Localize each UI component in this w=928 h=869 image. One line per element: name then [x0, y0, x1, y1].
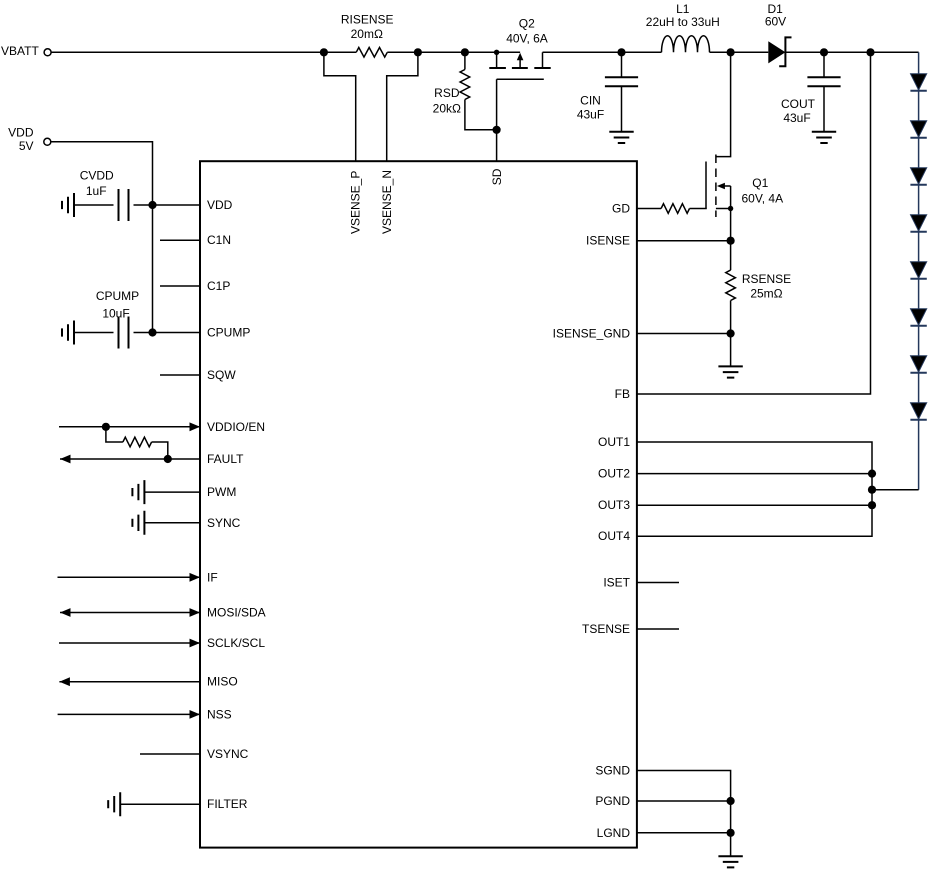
- pin label OUT2: [598, 467, 630, 481]
- pin label ISENSE_GND: [553, 327, 631, 341]
- label RISENSE value 20mohm: [351, 27, 383, 41]
- LED D4 cathode bar: [910, 184, 926, 186]
- transistor Q2 gate bar: [497, 78, 544, 80]
- pin label FAULT: [207, 452, 244, 466]
- svg-text:Q1: Q1: [752, 176, 768, 190]
- wire PWM pin: [144, 491, 200, 493]
- LED D2 triangle: [911, 74, 927, 90]
- pin label PGND: [595, 794, 630, 808]
- svg-text:60V: 60V: [765, 15, 786, 29]
- wire divider right lead: [152, 442, 168, 459]
- wire VDDIO/EN arrow: [59, 422, 200, 431]
- svg-text:SQW: SQW: [207, 368, 236, 382]
- wire CPUMP pin: [153, 332, 201, 334]
- resistor RISENSE: [356, 48, 387, 58]
- wire FILTER pin: [120, 803, 200, 805]
- ground FILTER: [108, 792, 120, 816]
- wire VDD terminal to rail: [51, 142, 153, 333]
- LED D7 triangle: [911, 309, 927, 325]
- label COUT value: [783, 111, 810, 125]
- svg-text:1uF: 1uF: [86, 184, 107, 198]
- svg-text:FB: FB: [615, 387, 630, 401]
- pin label VDDIO/EN: [207, 420, 265, 434]
- wire RISENSE to Q2: [387, 51, 520, 53]
- svg-text:CPUMP: CPUMP: [207, 326, 250, 340]
- ground CVDD: [62, 193, 74, 217]
- svg-text:C1N: C1N: [207, 233, 231, 247]
- wire C1N stub: [160, 239, 200, 241]
- svg-text:CIN: CIN: [580, 94, 601, 108]
- LED D3 triangle: [911, 121, 927, 137]
- node CPUMP pin junction: [148, 328, 156, 336]
- svg-text:SGND: SGND: [595, 764, 630, 778]
- svg-text:MISO: MISO: [207, 675, 238, 689]
- wire OUT2 pin: [637, 473, 872, 475]
- wire Q2 gate down to SD: [496, 79, 498, 161]
- wire SYNC pin: [144, 522, 200, 524]
- svg-text:MOSI/SDA: MOSI/SDA: [207, 606, 266, 620]
- label CVDD value: [86, 184, 107, 198]
- label D1: [768, 2, 784, 16]
- svg-text:CPUMP: CPUMP: [96, 289, 139, 303]
- svg-text:LGND: LGND: [597, 826, 631, 840]
- wire LED string vertical: [918, 52, 920, 489]
- LED D4 triangle: [911, 168, 927, 184]
- pin label OUT4: [598, 529, 630, 543]
- diode D1 cathode bar: [779, 37, 791, 66]
- wire FB riser: [637, 52, 871, 394]
- capacitor CIN: [605, 52, 638, 132]
- capacitor CVDD: [74, 189, 153, 221]
- resistor RGD: [661, 204, 689, 214]
- label L1: [676, 2, 690, 16]
- wire SGND pin: [637, 771, 731, 857]
- wire RSD bottom to SD node: [465, 100, 497, 130]
- LED D3 cathode bar: [910, 137, 926, 139]
- wire IF arrow: [58, 573, 201, 582]
- label CPUMP value: [102, 307, 129, 321]
- pin label OUT3: [598, 498, 630, 512]
- node SD junction: [493, 126, 501, 134]
- node Q2 source junction: [494, 50, 499, 55]
- wire Q1 source to ISENSE: [730, 209, 732, 271]
- wire C1P stub: [160, 285, 200, 287]
- wire SCLK/SCL arrow: [59, 639, 200, 648]
- svg-text:5V: 5V: [19, 139, 34, 153]
- ground PWM: [132, 480, 144, 504]
- pin label TSENSE: [582, 622, 630, 636]
- ground COUT: [812, 132, 836, 143]
- wire LED return: [872, 489, 919, 491]
- pin label VSENSE_P rotated: [348, 171, 362, 234]
- svg-text:VDDIO/EN: VDDIO/EN: [207, 420, 265, 434]
- pin label C1P: [207, 279, 230, 293]
- transistor Q1 source contact: [716, 208, 731, 210]
- pin label NSS: [207, 707, 232, 721]
- capacitor COUT: [807, 52, 840, 132]
- wire MISO arrow: [59, 677, 200, 686]
- svg-text:OUT2: OUT2: [598, 467, 630, 481]
- pin label GD: [612, 202, 630, 216]
- svg-text:25mΩ: 25mΩ: [750, 287, 782, 301]
- wire VSENSE_P branch: [324, 52, 356, 161]
- svg-text:RISENSE: RISENSE: [341, 13, 394, 27]
- wire VSYNC stub: [140, 753, 200, 755]
- label RSD: [434, 86, 460, 100]
- ground CIN: [609, 132, 633, 143]
- svg-text:43uF: 43uF: [577, 108, 604, 122]
- wire VBATT rail to RISENSE: [51, 51, 356, 53]
- svg-text:60V, 4A: 60V, 4A: [741, 192, 783, 206]
- svg-text:RSENSE: RSENSE: [742, 272, 791, 286]
- wire OUT1 pin: [637, 442, 872, 536]
- node OUT2 junction: [868, 470, 876, 478]
- svg-text:ISENSE_GND: ISENSE_GND: [553, 327, 631, 341]
- pin label SD rotated: [490, 168, 504, 185]
- LED D7 cathode bar: [910, 325, 926, 327]
- svg-text:VSENSE_N: VSENSE_N: [380, 170, 394, 234]
- resistor RSENSE: [726, 270, 736, 300]
- svg-text:CVDD: CVDD: [80, 169, 114, 183]
- node VSENSE_P tap: [320, 48, 328, 56]
- wire FAULT arrow: [60, 455, 200, 464]
- resistor RSD: [460, 52, 470, 99]
- pin label MISO: [207, 675, 238, 689]
- LED D2 cathode bar: [910, 90, 926, 92]
- label RSENSE value: [750, 287, 782, 301]
- wire TSENSE stub: [637, 628, 679, 630]
- svg-text:10uF: 10uF: [102, 307, 129, 321]
- svg-text:COUT: COUT: [781, 97, 816, 111]
- svg-text:GD: GD: [612, 202, 630, 216]
- node CIN junction: [617, 48, 625, 56]
- svg-text:ISET: ISET: [603, 576, 630, 590]
- LED D6 cathode bar: [910, 278, 926, 280]
- wire RGD to Q1 gate: [690, 208, 707, 210]
- svg-text:SYNC: SYNC: [207, 516, 241, 530]
- node OUT3 junction: [868, 501, 876, 509]
- label D1 value: [765, 15, 786, 29]
- wire D1 to LED string: [785, 51, 918, 53]
- wire divider left lead: [106, 427, 123, 442]
- svg-text:20mΩ: 20mΩ: [351, 27, 383, 41]
- wire SQW stub: [160, 374, 200, 376]
- pin label LGND: [597, 826, 631, 840]
- label CPUMP: [96, 289, 139, 303]
- wire OUT3 pin: [637, 504, 872, 506]
- label Q2 rating: [506, 32, 548, 46]
- ground RSENSE: [718, 366, 742, 377]
- node FB tap: [866, 48, 874, 56]
- node LGND junction: [727, 829, 735, 837]
- svg-text:20kΩ: 20kΩ: [433, 102, 461, 116]
- label RSENSE: [742, 272, 791, 286]
- node Q1 source: [728, 206, 733, 211]
- pin label PWM: [207, 485, 236, 499]
- wire ISENSE_GND pin: [637, 333, 731, 335]
- svg-text:OUT1: OUT1: [598, 435, 630, 449]
- node RSD tap: [461, 48, 469, 56]
- pin label FILTER: [207, 797, 248, 811]
- svg-text:43uF: 43uF: [783, 111, 810, 125]
- label Q1 rating: [741, 192, 783, 206]
- pin label VSENSE_N rotated: [380, 170, 394, 234]
- svg-text:VSYNC: VSYNC: [207, 747, 249, 761]
- transistor Q1 gate bar: [705, 162, 707, 209]
- LED D5 cathode bar: [910, 231, 926, 233]
- LED D9 cathode bar: [910, 419, 926, 421]
- node PGND junction: [727, 797, 735, 805]
- svg-text:TSENSE: TSENSE: [582, 622, 630, 636]
- pin label ISET: [603, 576, 630, 590]
- transistor Q1 body arrow: [717, 183, 731, 209]
- transistor Q2 channel middle: [512, 67, 528, 69]
- label COUT: [781, 97, 816, 111]
- svg-text:RSD: RSD: [434, 86, 460, 100]
- pin label OUT1: [598, 435, 630, 449]
- wire MOSI/SDA arrows: [60, 608, 200, 617]
- label L1 value: [646, 15, 720, 29]
- svg-text:SD: SD: [490, 168, 504, 185]
- svg-text:OUT3: OUT3: [598, 498, 630, 512]
- transistor Q2 source contact: [489, 52, 506, 68]
- ground CPUMP: [62, 321, 74, 345]
- label Q2: [519, 17, 535, 31]
- svg-text:22uH to 33uH: 22uH to 33uH: [646, 15, 720, 29]
- svg-text:L1: L1: [676, 2, 690, 16]
- node FAULT junction: [164, 455, 172, 463]
- label CIN value: [577, 108, 604, 122]
- svg-text:OUT4: OUT4: [598, 529, 630, 543]
- svg-text:PWM: PWM: [207, 485, 236, 499]
- label RISENSE: [341, 13, 394, 27]
- node VDDIO divider tap: [102, 423, 110, 431]
- pin label SGND: [595, 764, 630, 778]
- ground SYNC: [132, 511, 144, 535]
- wire GD pin: [637, 208, 661, 210]
- diode D1 anode triangle: [768, 41, 785, 63]
- node Q1 drain tap: [727, 48, 735, 56]
- node COUT junction: [820, 48, 828, 56]
- pin label SQW: [207, 368, 236, 382]
- transistor Q1 channel dashed: [715, 155, 717, 218]
- terminal VBATT: [44, 49, 51, 56]
- svg-text:Q2: Q2: [519, 17, 535, 31]
- wire VDD pin: [153, 204, 201, 206]
- wire ISENSE pin: [637, 240, 731, 242]
- svg-text:SCLK/SCL: SCLK/SCL: [207, 636, 265, 650]
- LED D8 triangle: [911, 356, 927, 372]
- label RSD value 20kohm: [433, 102, 461, 116]
- svg-text:FILTER: FILTER: [207, 797, 248, 811]
- pin label MOSI/SDA: [207, 606, 266, 620]
- label CVDD: [80, 169, 114, 183]
- svg-text:IF: IF: [207, 570, 218, 584]
- svg-text:VBATT: VBATT: [1, 44, 39, 58]
- LED D6 triangle: [911, 262, 927, 278]
- svg-text:40V, 6A: 40V, 6A: [506, 32, 548, 46]
- wire LGND pin: [637, 832, 731, 834]
- capacitor CPUMP: [74, 317, 153, 349]
- transistor Q2 body arrow: [517, 53, 524, 68]
- LED D5 triangle: [911, 215, 927, 231]
- pin label SYNC: [207, 516, 241, 530]
- svg-text:VDD: VDD: [207, 198, 233, 212]
- svg-text:NSS: NSS: [207, 707, 232, 721]
- svg-text:PGND: PGND: [595, 794, 630, 808]
- label 5V: [19, 139, 34, 153]
- wire Q1 drain riser: [716, 52, 731, 156]
- svg-text:FAULT: FAULT: [207, 452, 244, 466]
- pin label ISENSE: [586, 234, 630, 248]
- wire VSENSE_N branch: [387, 52, 418, 161]
- pin label VSYNC: [207, 747, 249, 761]
- node ISENSE_GND junction: [727, 329, 735, 337]
- pin label IF: [207, 570, 218, 584]
- LED D8 cathode bar: [910, 372, 926, 374]
- node VDD pin junction: [148, 201, 156, 209]
- inductor L1: [662, 36, 710, 52]
- svg-text:VDD: VDD: [8, 126, 34, 140]
- wire NSS arrow: [58, 710, 200, 719]
- pin label SCLK/SCL: [207, 636, 265, 650]
- pin label C1N: [207, 233, 231, 247]
- wire ISET stub: [637, 582, 679, 584]
- op-amp U1 IC body: [200, 161, 637, 847]
- svg-text:C1P: C1P: [207, 279, 230, 293]
- svg-text:ISENSE: ISENSE: [586, 234, 630, 248]
- pin label VDD: [207, 198, 233, 212]
- svg-text:VSENSE_P: VSENSE_P: [348, 171, 362, 234]
- pin label FB: [615, 387, 630, 401]
- wire RSENSE to ISENSE_GND: [730, 301, 732, 367]
- ground main: [718, 856, 742, 867]
- label VBATT: [1, 44, 39, 58]
- label CIN: [580, 94, 601, 108]
- label Q1: [752, 176, 768, 190]
- terminal VDD 5V: [44, 138, 51, 145]
- transistor Q2 drain contact: [534, 52, 550, 68]
- LED D9 triangle: [911, 403, 927, 419]
- resistor R pullup: [123, 437, 152, 447]
- wire Q2 drain to L1: [543, 51, 662, 53]
- node ISENSE junction: [727, 237, 735, 245]
- node VSENSE_N tap: [414, 48, 422, 56]
- pin label CPUMP: [207, 326, 250, 340]
- wire PGND pin: [637, 800, 731, 802]
- wire L1 to D1: [710, 51, 769, 53]
- node LED return junction: [868, 486, 876, 494]
- label VDD: [8, 126, 34, 140]
